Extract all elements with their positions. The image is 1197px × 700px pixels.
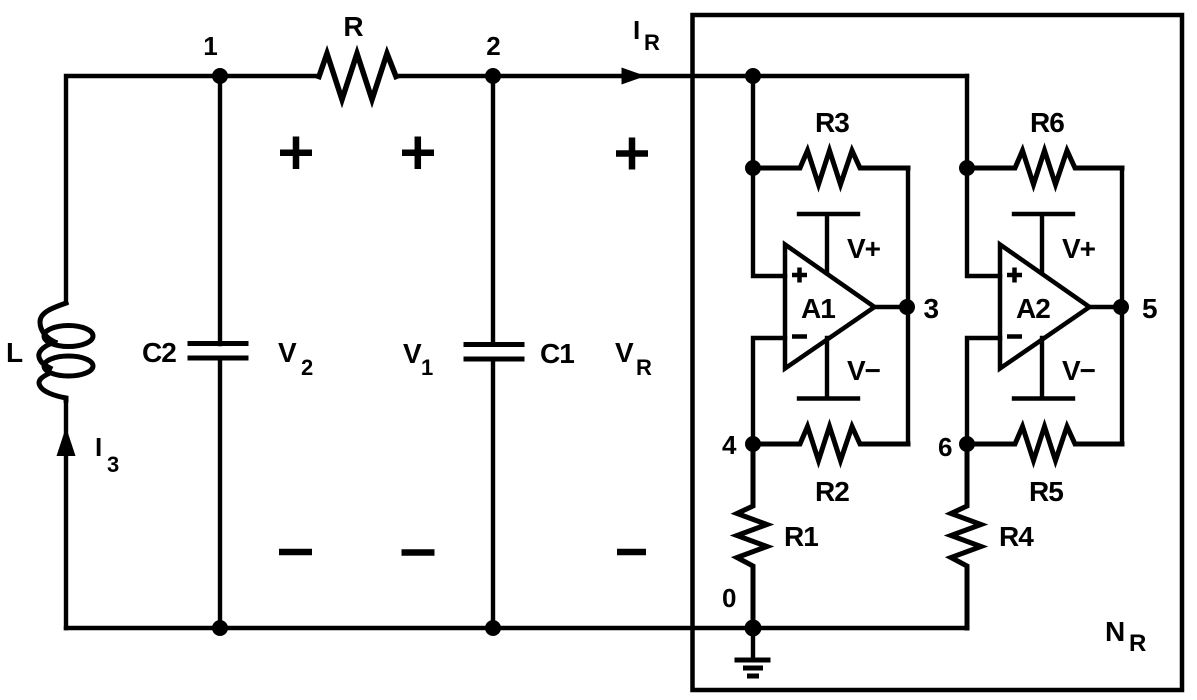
op-amp A2 triangle [1000,245,1090,369]
wire: left rail top corner down to inductor [66,76,220,303]
wire: resistor R to node 2 [396,74,493,78]
node 4 junction dot [745,436,761,452]
wire: node 1 to resistor R [220,74,319,78]
svg-text:I: I [95,432,101,462]
wire: C2 branch bottom [218,358,222,628]
node: C1 bottom junction dot [485,620,501,636]
svg-text:A2: A2 [1016,293,1050,324]
V+ supply rail A1 [799,214,858,273]
svg-text:R5: R5 [1029,476,1063,507]
svg-text:3: 3 [924,293,939,324]
svg-text:R: R [343,11,363,42]
polarity + for V2 [280,137,312,170]
svg-text:5: 5 [1142,293,1157,324]
svg-text:V: V [403,338,422,369]
label V1 [403,338,433,380]
wire: A1 output [874,305,908,309]
resistor R5 [967,427,1122,461]
svg-text:V−: V− [1062,355,1096,386]
resistor R [319,54,396,100]
wire: C2 branch top [218,76,222,344]
V- supply rail A2 [1014,338,1073,399]
svg-text:1: 1 [203,31,217,61]
wire: A1 right rail [906,168,910,444]
svg-text:R: R [1129,630,1146,657]
wire: C1 branch top [491,76,495,344]
svg-text:6: 6 [938,432,952,462]
node: top rail junction dot inside NR [745,68,761,84]
svg-text:4: 4 [722,430,737,460]
svg-text:2: 2 [301,355,313,380]
resistor R6 [967,151,1122,185]
svg-text:R3: R3 [815,107,849,138]
label I3 [95,432,119,477]
current arrow I3 [57,427,76,456]
svg-text:R: R [644,30,660,55]
node 2 junction dot [485,68,501,84]
svg-text:R4: R4 [999,521,1034,552]
svg-text:A1: A1 [801,293,835,324]
ground symbol [737,628,768,676]
svg-text:0: 0 [722,583,736,613]
box NR boundary [693,15,1183,690]
svg-text:V: V [615,337,634,368]
svg-text:C1: C1 [540,338,574,369]
svg-text:V: V [278,337,297,368]
node 1 junction dot [212,68,228,84]
wire: A2 left rail to non-inverting input [967,76,1000,276]
capacitor C2 [190,344,246,359]
svg-text:C2: C2 [142,337,176,368]
capacitor C1 [466,345,522,360]
wire: C1 branch bottom [491,359,495,628]
wire: top rail to A2 [753,74,967,78]
op-amp A2 - input sign [1007,334,1022,339]
polarity - for V1 [402,549,435,556]
svg-text:2: 2 [486,31,500,61]
polarity - for VR [617,549,646,556]
op-amp A1 triangle [785,245,875,369]
svg-text:R: R [636,355,652,380]
wire: A2 right rail [1120,168,1124,444]
polarity + for V1 [402,137,434,170]
resistor R4 [951,444,981,628]
V- supply rail A1 [799,338,858,399]
svg-text:V+: V+ [847,233,881,264]
node 6 junction dot [959,436,975,452]
label V2 [278,337,313,380]
polarity + for VR [616,138,648,170]
node 5 junction dot [1113,299,1129,315]
wire: node 2 into box NR (top rail) [493,74,753,78]
op-amp A1 + input sign [792,268,807,283]
wire: A2 output [1089,305,1122,309]
svg-text:R6: R6 [1030,107,1064,138]
resistor R1 [737,444,767,628]
svg-text:3: 3 [107,452,119,477]
svg-text:V−: V− [847,355,881,386]
wire: A2 inverting input down to node 6 [967,338,1000,444]
wire: A1 inverting input down to node 4 [753,338,785,444]
resistor R3 [753,151,908,185]
label VR [615,337,652,380]
node: R6 left junction dot [959,160,975,176]
svg-text:R2: R2 [815,476,849,507]
svg-text:V+: V+ [1062,233,1096,264]
label NR [1105,616,1146,657]
label IR [633,15,660,55]
svg-text:N: N [1105,616,1124,647]
node 3 junction dot [899,299,915,315]
current arrow IR [622,68,646,85]
wire: bottom rail [66,626,967,630]
wire: left rail bottom (inductor to bottom rail) [64,399,68,628]
node 0 junction dot [745,620,762,637]
resistor R2 [753,427,908,461]
svg-text:R1: R1 [784,521,818,552]
V+ supply rail A2 [1014,214,1073,273]
node: C2 bottom junction dot [212,620,228,636]
op-amp A1 - input sign [792,334,807,339]
svg-text:L: L [6,337,23,368]
svg-text:1: 1 [421,355,433,380]
op-amp A2 + input sign [1007,268,1022,283]
wire: A1 left rail to non-inverting input [753,76,785,276]
inductor L [39,303,93,400]
polarity - for V2 [279,549,312,556]
svg-text:I: I [633,15,639,45]
node: R3 left junction dot [745,160,761,176]
